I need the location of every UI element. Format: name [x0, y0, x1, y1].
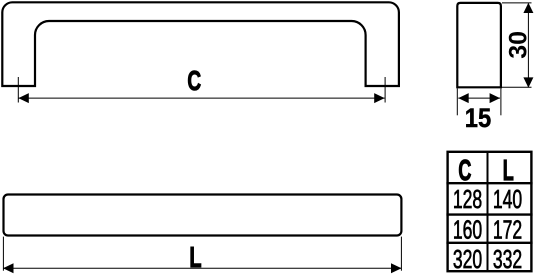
table outer border: [448, 152, 532, 271]
svg-text:L: L: [189, 241, 201, 274]
svg-text:C: C: [187, 66, 201, 98]
arrowhead 30 down: [523, 77, 533, 87]
extension line right (L dim): [400, 237, 402, 271]
svg-text:15: 15: [465, 104, 491, 134]
svg-text:332: 332: [493, 245, 522, 274]
extension line top (30 dim): [502, 2, 532, 4]
dimension line 15: [458, 97, 500, 99]
arrowhead 30 up: [523, 3, 533, 13]
table row separator 1: [446, 213, 532, 215]
svg-text:128: 128: [453, 185, 482, 214]
arrowhead 15 right: [490, 93, 500, 103]
dimension line L: [3, 267, 402, 269]
svg-text:140: 140: [493, 185, 522, 214]
svg-text:160: 160: [453, 215, 482, 244]
svg-text:L: L: [503, 155, 514, 187]
extension line left (L dim): [2, 237, 4, 271]
arrowhead C left: [18, 93, 28, 103]
arrowhead C right: [374, 93, 384, 103]
extension line bottom (30 dim): [502, 86, 532, 88]
svg-text:172: 172: [493, 215, 522, 244]
arrowhead L right: [391, 263, 402, 273]
svg-text:C: C: [458, 155, 471, 187]
svg-text:30: 30: [504, 31, 532, 59]
table row separator 2: [446, 242, 532, 244]
tick left (C dimension): [17, 77, 19, 103]
table vertical divider: [487, 151, 489, 272]
dimension line C: [18, 97, 384, 99]
arrowhead L left: [3, 263, 14, 273]
extension line left (15 dim): [456, 88, 458, 115]
table header separator: [446, 182, 532, 184]
tick right (C dimension): [384, 77, 386, 103]
arrowhead 15 left: [458, 93, 468, 103]
bottom view rectangle: [4, 195, 402, 236]
dimension line 30: [527, 4, 529, 87]
side view rectangle: [457, 3, 501, 87]
handle front view outline: [2, 2, 399, 86]
extension line right (15 dim): [500, 88, 502, 115]
svg-text:320: 320: [453, 245, 482, 274]
